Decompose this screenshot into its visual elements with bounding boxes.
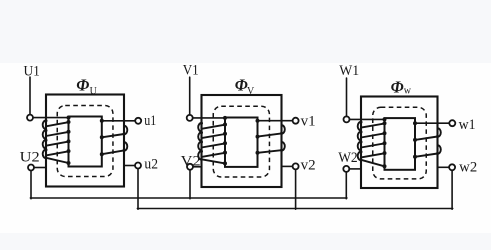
wire V2 down <box>189 170 191 199</box>
secondary winding u1-u2 of TU <box>100 119 135 166</box>
label flux Phi_V <box>235 76 255 97</box>
transformer core TV outer outline <box>202 95 282 187</box>
wire W2 down <box>345 172 347 199</box>
flux path Phi_V (dashed) <box>213 106 269 177</box>
lead wire U1 (line up) <box>29 77 31 115</box>
transformer core TU outer outline <box>46 95 124 187</box>
secondary winding v1-v2 of TV <box>256 119 293 167</box>
wire U2 down <box>30 171 32 199</box>
label flux Phi_W <box>391 77 412 96</box>
terminal v1 <box>293 118 299 124</box>
svg-text:u1: u1 <box>144 113 156 129</box>
secondary neutral bus wire (u2-v2-w2) <box>137 208 453 210</box>
lead wire V1 (line up) <box>189 77 191 115</box>
svg-text:v1: v1 <box>301 114 316 130</box>
terminal u2 <box>135 163 141 169</box>
wire w2 down <box>451 170 453 209</box>
terminal W1 <box>344 116 350 122</box>
core TU window <box>69 117 102 167</box>
svg-text:v2: v2 <box>301 158 316 174</box>
svg-text:U: U <box>90 86 98 97</box>
svg-text:w: w <box>404 86 412 97</box>
svg-text:Φ: Φ <box>235 76 248 95</box>
secondary winding w1-w2 of TW <box>413 121 449 167</box>
svg-text:w1: w1 <box>459 117 476 133</box>
primary neutral bus wire (U2-V2-W2) <box>30 197 347 199</box>
terminal V2 <box>187 164 193 170</box>
terminal U2 <box>28 165 34 171</box>
svg-text:Φ: Φ <box>391 77 404 96</box>
wire u2 down <box>137 169 139 210</box>
svg-text:W2: W2 <box>338 150 358 166</box>
primary winding W1-W2 of TW <box>349 117 386 168</box>
primary winding U1-U2 of TU <box>33 116 71 168</box>
svg-text:u2: u2 <box>144 157 158 173</box>
terminal w2 <box>449 164 455 170</box>
svg-text:W1: W1 <box>339 63 359 79</box>
svg-text:Φ: Φ <box>76 75 89 94</box>
terminal U1 <box>27 115 33 121</box>
wire v2 down <box>295 169 297 209</box>
flux path Phi_W (dashed) <box>373 107 427 179</box>
svg-text:U2: U2 <box>20 149 40 165</box>
svg-text:V: V <box>247 86 255 97</box>
terminal u1 <box>135 118 141 124</box>
label flux Phi_U <box>76 75 97 97</box>
terminal W2 <box>343 166 349 172</box>
terminal V1 <box>187 115 193 121</box>
svg-text:w2: w2 <box>459 159 477 175</box>
terminal v2 <box>293 163 299 169</box>
primary winding V1-V2 of TV <box>193 116 227 167</box>
svg-text:U1: U1 <box>24 63 40 79</box>
svg-text:V2: V2 <box>181 154 201 170</box>
flux path Phi_U (dashed) <box>57 106 113 177</box>
svg-text:V1: V1 <box>183 63 199 79</box>
transformer core TW outer outline <box>361 97 438 189</box>
core TW window <box>385 118 416 170</box>
core TV window <box>225 118 258 167</box>
lead wire W1 (line up) <box>346 78 348 116</box>
terminal w1 <box>449 120 455 126</box>
